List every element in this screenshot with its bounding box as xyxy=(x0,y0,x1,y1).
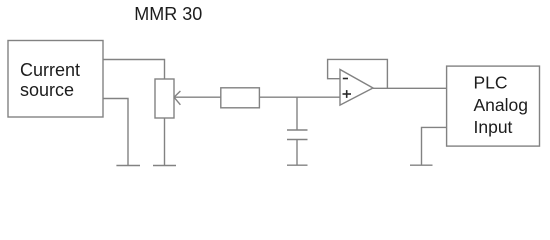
svg-text:Input: Input xyxy=(474,117,513,137)
svg-text:source: source xyxy=(20,80,74,100)
svg-text:PLC: PLC xyxy=(474,73,508,93)
svg-text:Current: Current xyxy=(20,60,80,80)
svg-text:Analog: Analog xyxy=(474,95,529,115)
svg-text:MMR 30: MMR 30 xyxy=(134,4,202,24)
